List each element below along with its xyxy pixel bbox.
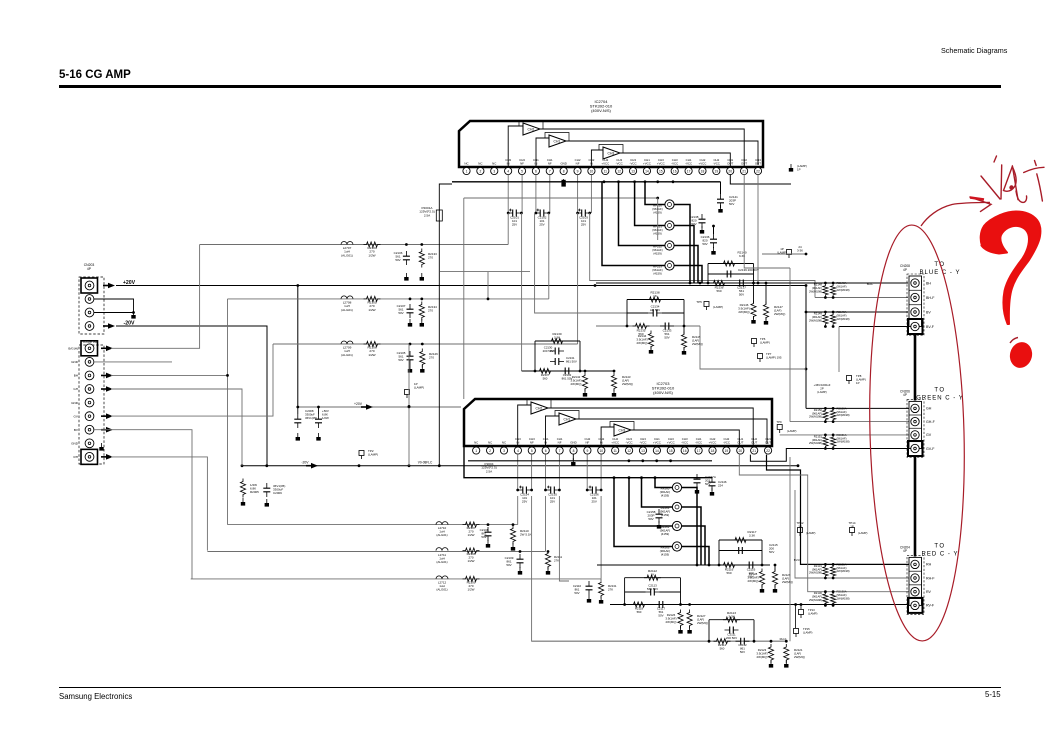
wire internal IC2703 outputs (518, 405, 767, 446)
resistor pair R2148/R2148A (823, 282, 836, 299)
power +20V arrow (103, 280, 136, 288)
resistor R2116 (721, 562, 738, 575)
capacitor C2139 (722, 268, 759, 278)
svg-text:R2151(961AF)2W(M198): R2151(961AF)2W(M198) (809, 434, 822, 445)
capacitor C2110 (573, 581, 593, 595)
connector CN201 pin labels (68, 347, 79, 460)
svg-text:BH: BH (926, 281, 931, 285)
resistor R2113 network (709, 611, 754, 641)
ground C2009 (265, 499, 269, 507)
svg-text:19: 19 (725, 449, 729, 453)
ground R2127 (687, 626, 691, 634)
svg-text:16: 16 (673, 169, 677, 173)
svg-text:CH1: CH1 (554, 140, 561, 144)
wire y641 row (532, 640, 788, 643)
op-amp hybrid IC U-IC2703 STK392-010 (464, 381, 772, 454)
svg-text:+VCC: +VCC (653, 441, 661, 445)
wire row550 riser pin6 (545, 496, 547, 552)
wire BV row (806, 311, 908, 313)
svg-text:7: 7 (559, 449, 561, 453)
svg-text:C2158203P50V: C2158203P50V (647, 510, 656, 521)
svg-text:10: 10 (590, 169, 594, 173)
power +20V arrow mid (354, 402, 373, 410)
wire RH row (767, 455, 912, 565)
capacitor C2132 (560, 368, 574, 381)
ground C2108 (486, 540, 490, 548)
svg-text:17: 17 (687, 169, 691, 173)
svg-text:BLUE C - Y: BLUE C - Y (920, 270, 961, 276)
svg-text:C210756150V: C210756150V (397, 304, 406, 315)
svg-text:L27081uH(ALG01): L27081uH(ALG01) (341, 300, 353, 311)
svg-text:C2111200 50V: C2111200 50V (726, 633, 737, 641)
wire RH-F row (795, 490, 911, 578)
svg-text:11: 11 (613, 449, 617, 453)
svg-text:R21082701/2W: R21082701/2W (467, 552, 476, 563)
wire +20V rail (116, 284, 806, 287)
wire x790 GH-F vertical (789, 268, 791, 422)
svg-text:18: 18 (701, 169, 705, 173)
wire RV row (739, 455, 911, 592)
annotation red ellipse (865, 224, 970, 642)
wire RV-F row (908, 604, 911, 607)
wire RF261 right (682, 507, 701, 565)
ground R2121 (784, 660, 788, 668)
wire net GV (111, 344, 273, 416)
svg-text:5: 5 (531, 449, 533, 453)
wire vertical x464 (463, 198, 465, 399)
svg-text:GREEN C - Y: GREEN C - Y (916, 395, 964, 401)
svg-text:9: 9 (577, 169, 579, 173)
wire C2141 top (720, 182, 722, 194)
svg-text:R2134270: R2134270 (428, 305, 437, 313)
wire -20V rail (241, 464, 800, 467)
wire RF253 left (602, 182, 665, 266)
wire BH row (758, 282, 908, 284)
test point TP13 (799, 608, 818, 618)
capacitor C2113 (625, 584, 681, 596)
svg-text:(LAMP): (LAMP) (806, 531, 816, 535)
wire RF260 right (682, 488, 697, 566)
svg-text:20: 20 (728, 169, 732, 173)
label BV-F mid (794, 558, 801, 562)
connector CN204 TO RED C-Y (900, 543, 958, 614)
ground R2147 (764, 317, 768, 325)
page title (59, 69, 131, 81)
resistor pair R2131/R2131A (823, 563, 836, 579)
wire pin7 drop b (559, 496, 569, 581)
svg-text:GND: GND (71, 441, 79, 445)
svg-text:11: 11 (604, 169, 608, 173)
svg-text:OUT: OUT (737, 441, 743, 445)
svg-text:L27101uH(ALG01): L27101uH(ALG01) (436, 526, 447, 537)
capacitor C2155 (544, 486, 561, 504)
svg-text:R21283.9(1AF)2W(MQ): R21283.9(1AF)2W(MQ) (747, 572, 758, 583)
svg-text:R2143(1AF)2W(MQ): R2143(1AF)2W(MQ) (622, 375, 633, 386)
svg-text:14: 14 (655, 449, 659, 453)
svg-text:L27121uH(ALG01): L27121uH(ALG01) (436, 581, 447, 592)
test point TP2 (359, 449, 378, 459)
svg-text:(LAMP)1P: (LAMP)1P (797, 164, 807, 172)
svg-text:C213882050V: C213882050V (690, 215, 699, 226)
svg-text:TP6(LAMP): TP6(LAMP) (760, 337, 770, 345)
svg-text:21: 21 (742, 169, 746, 173)
wire C2136 stub (712, 225, 715, 234)
resistor pair R2130/R2130A (823, 590, 836, 607)
resistor pair R2150/R2150A (823, 407, 836, 423)
svg-text:C2146224: C2146224 (718, 480, 727, 488)
capacitor C2133 (660, 323, 674, 340)
capacitor C2137 (735, 280, 749, 297)
wire RF253 right (674, 266, 702, 284)
svg-text:TP15(LAMP): TP15(LAMP) (803, 627, 813, 634)
ground R2144 (649, 346, 653, 354)
svg-text:R21233.9(1AF)2W(MQ): R21233.9(1AF)2W(MQ) (756, 648, 767, 659)
svg-text:CN2034P: CN2034P (84, 263, 95, 271)
signal arrows CN201 (101, 346, 113, 460)
footer right (985, 690, 1001, 699)
svg-text:-VCC: -VCC (626, 441, 633, 445)
resistor R2142 (570, 373, 587, 392)
capacitor C2111 (725, 627, 739, 641)
wire -20V from CN203 pin4 (116, 326, 267, 466)
svg-text:+VCC: +VCC (709, 441, 717, 445)
svg-text:+VCC: +VCC (657, 162, 665, 166)
wire pin5 drop (521, 213, 523, 371)
ground at CN201 pin8 (99, 443, 103, 451)
capacitor C2131 (550, 356, 577, 365)
power -20V arrow (103, 321, 135, 329)
ground C2105 (408, 365, 412, 373)
svg-text:C2141203P50V: C2141203P50V (729, 195, 738, 206)
svg-text:R21072701/2W: R21072701/2W (467, 526, 476, 537)
svg-text:RED C - Y: RED C - Y (922, 551, 959, 557)
svg-text:GND: GND (71, 360, 79, 364)
svg-text:243-3K: 243-3K (797, 245, 803, 253)
wire fuse drop (464, 446, 712, 479)
svg-text:R21102W 5.1K: R21102W 5.1K (520, 529, 532, 537)
svg-text:+VCC: +VCC (699, 162, 707, 166)
wire x790 lower vertical (789, 457, 791, 641)
label GV-F (780, 637, 787, 641)
label 24 3K (797, 245, 803, 253)
svg-text:TP7(LAMP) 195: TP7(LAMP) 195 (766, 352, 782, 360)
annotation red VOLT text (981, 156, 1044, 202)
svg-text:NC: NC (474, 441, 478, 445)
jungle coil RF263 (660, 542, 682, 557)
capacitor C2117 (654, 601, 668, 618)
ground R2142 (583, 389, 587, 397)
svg-text:L27091uH(ALG01): L27091uH(ALG01) (341, 346, 353, 357)
svg-text:R21381K: R21381K (650, 291, 659, 299)
svg-text:12: 12 (627, 449, 631, 453)
test point TP15 (794, 627, 813, 637)
svg-text:R2150(961AF)2W(M198): R2150(961AF)2W(M198) (809, 408, 822, 419)
svg-text:C210986150V: C210986150V (505, 556, 514, 567)
jungle coil RF251 (652, 221, 674, 236)
svg-text:R21423.9(1AF)2W(MQ): R21423.9(1AF)2W(MQ) (570, 375, 581, 386)
svg-text:GV: GV (926, 433, 932, 437)
svg-text:CN2064P: CN2064P (900, 389, 910, 397)
svg-text:RV: RV (926, 590, 932, 594)
svg-text:RH-F: RH-F (926, 576, 935, 580)
wire tp3 row (762, 253, 807, 256)
wire gray y198 (464, 197, 659, 200)
svg-text:16: 16 (683, 449, 687, 453)
svg-text:L27071uH(ALG01): L27071uH(ALG01) (341, 246, 353, 257)
test point TP3 (777, 247, 791, 258)
svg-text:C211086150V: C211086150V (573, 584, 582, 595)
svg-text:C210110125V: C210110125V (510, 216, 519, 227)
svg-text:R2116560: R2116560 (725, 568, 734, 576)
ground C2107 (408, 319, 412, 327)
resistor R2134 (419, 298, 437, 321)
capacitor C2158 (647, 509, 663, 523)
svg-text:NC: NC (492, 162, 496, 166)
wire RF263 left (614, 478, 672, 547)
svg-text:2: 2 (489, 449, 491, 453)
op-amp hybrid IC U-IC2704 STK392-010 (459, 99, 763, 175)
ground R2126 (678, 626, 682, 634)
wire BV-F row (839, 327, 908, 373)
wire row524 riser pin4 (517, 496, 519, 525)
svg-text:NC: NC (502, 441, 506, 445)
svg-text:BV: BV (926, 310, 931, 314)
svg-text:R2126270: R2126270 (429, 352, 438, 360)
test point TP6 (752, 337, 770, 347)
svg-text:R21303.3K: R21303.3K (552, 332, 561, 340)
capacitor C2134 (627, 305, 684, 317)
ground R2128 (760, 585, 764, 593)
test point TP14 (849, 521, 868, 536)
capacitor C2115 (734, 543, 778, 554)
connector CN201 outline (79, 345, 104, 464)
svg-text:C2139 200 50V: C2139 200 50V (738, 268, 759, 272)
ground C2136 (711, 247, 715, 255)
wire row578 riser pin10 (600, 496, 602, 579)
wire net GND2 (111, 389, 242, 466)
ground C2138 (700, 226, 704, 234)
svg-text:R2118560: R2118560 (635, 607, 644, 615)
svg-text:-VCC: -VCC (695, 441, 702, 445)
wire out pin21 route (744, 175, 790, 268)
svg-text:R2129(1AF)2W(MQ): R2129(1AF)2W(MQ) (782, 573, 793, 584)
svg-text:BH-F: BH-F (867, 282, 874, 286)
svg-text:CH1: CH1 (564, 418, 571, 422)
capacitor C2009 (263, 483, 285, 497)
svg-text:CH2: CH2 (528, 128, 535, 132)
ground R2129 (773, 585, 777, 593)
resistor R2137 (537, 368, 554, 380)
svg-text:-VCC: -VCC (630, 162, 637, 166)
svg-text:GND: GND (560, 162, 566, 166)
svg-text:21: 21 (752, 449, 756, 453)
wire RF260 left (655, 478, 672, 488)
inductor L2707 resistor R2104 row (200, 242, 509, 258)
svg-text:C2113561 50V: C2113561 50V (647, 584, 658, 592)
ground C2158 (657, 521, 661, 529)
test point TP5 (696, 300, 723, 310)
capacitor C2109 (505, 550, 524, 568)
resistor R2127 (687, 610, 708, 629)
svg-text:RH: RH (74, 455, 78, 459)
annotation red question mark (981, 212, 1041, 325)
svg-text:+20V: +20V (354, 402, 363, 406)
svg-text:C2130200 50V: C2130200 50V (543, 346, 554, 354)
svg-text:R2145(1AF)2W(MQ): R2145(1AF)2W(MQ) (692, 335, 703, 346)
wire GH-F row (790, 421, 911, 423)
label pair R2150 (809, 406, 850, 418)
svg-text:14: 14 (645, 169, 649, 173)
inductor L2710 row (228, 522, 518, 538)
svg-text:RH-F: RH-F (780, 637, 787, 641)
svg-text:13: 13 (631, 169, 635, 173)
capacitor C2008 (294, 406, 317, 428)
resistor R2131b (599, 579, 617, 599)
capacitor C2101 (507, 209, 523, 227)
wire GH row (806, 407, 911, 409)
svg-text:R2130(961AF)2W(M198): R2130(961AF)2W(M198) (809, 591, 822, 602)
svg-text:R2127(1AF)2W(MQ): R2127(1AF)2W(MQ) (697, 614, 708, 625)
ground C2106 (404, 273, 408, 281)
svg-text:R2137560: R2137560 (541, 373, 550, 381)
label pair R2130 (809, 590, 850, 602)
capacitor C2103 (576, 209, 591, 227)
svg-text:C2134AR 50V: C2134AR 50V (650, 305, 660, 313)
ground at CN203 pin3 (131, 311, 135, 319)
jungle coil RF262 (660, 521, 682, 536)
wire net BG-H (111, 245, 200, 349)
ground R2005 (241, 498, 245, 506)
svg-text:P2004125V(F2.5)2.5A: P2004125V(F2.5)2.5A (481, 462, 496, 473)
svg-text:13: 13 (641, 449, 645, 453)
annotation red arrow curve (921, 197, 991, 226)
ground R2126b (420, 365, 424, 373)
svg-text:BH-F: BH-F (926, 296, 935, 300)
jungle coil RF252 (652, 241, 674, 256)
capacitor C2156 (586, 486, 603, 504)
capacitor C2112 (736, 638, 750, 654)
resistor R2114 (714, 639, 731, 651)
label pair R2148 (809, 281, 850, 293)
svg-text:R21173.3K: R21173.3K (748, 530, 757, 538)
resistor R2112 network (625, 569, 681, 605)
svg-text:C210210125V: C210210125V (538, 216, 547, 227)
svg-text:V0-08FLC: V0-08FLC (418, 461, 433, 465)
svg-text:CH2: CH2 (536, 407, 543, 411)
svg-text:R21092701/2W: R21092701/2W (467, 581, 476, 592)
connector CN203 outline (79, 277, 104, 334)
resistor R2111 (545, 550, 562, 569)
svg-text:TP5: TP5 (696, 300, 702, 304)
svg-text:NF: NF (548, 162, 552, 166)
svg-text:+VCC: +VCC (601, 162, 609, 166)
svg-text:20: 20 (738, 449, 742, 453)
resistor R2110 (510, 523, 531, 544)
ground R2145 (682, 347, 686, 355)
resistor R2121 (784, 644, 805, 663)
svg-text:TP2(LAMP): TP2(LAMP) (368, 449, 378, 457)
wire net GH (111, 299, 229, 525)
wire net RH (111, 457, 207, 551)
svg-text:C210310125V: C210310125V (579, 216, 588, 227)
wire y271 step (440, 272, 530, 301)
svg-text:R2121(1AF)2W(MQ): R2121(1AF)2W(MQ) (794, 648, 805, 659)
svg-text:IC2704STK392-010(400V-N/S): IC2704STK392-010(400V-N/S) (590, 99, 613, 113)
wire +20V drop to C2008 (297, 286, 299, 408)
capacitor C2108 (480, 523, 492, 541)
svg-text:+VCC: +VCC (643, 162, 651, 166)
fuse P2001A (419, 206, 442, 221)
svg-text:2: 2 (479, 169, 481, 173)
svg-text:NF: NF (520, 162, 524, 166)
svg-text:1: 1 (475, 449, 477, 453)
svg-text:8: 8 (563, 169, 565, 173)
svg-text:36V1(05)3300uFC2009: 36V1(05)3300uFC2009 (273, 484, 285, 495)
capacitor C2136 (701, 234, 717, 248)
header label (941, 46, 1007, 55)
svg-text:R21121K: R21121K (648, 569, 657, 577)
diode D2 cluster (814, 383, 831, 394)
jungle coil RF260 (660, 483, 682, 498)
svg-text:(LAMP): (LAMP) (787, 429, 797, 433)
svg-text:9: 9 (586, 449, 588, 453)
svg-text:GH: GH (926, 407, 932, 411)
svg-text:4: 4 (507, 169, 509, 173)
wire net BH (94, 361, 172, 363)
test point TP1 (405, 382, 425, 398)
resistor R2005 (240, 479, 259, 498)
capacitor C2116 (744, 562, 758, 579)
wire BH-F row (815, 297, 908, 299)
svg-text:-VCC: -VCC (681, 441, 688, 445)
wire out pin20 route (730, 175, 791, 184)
wire net BV (94, 430, 192, 579)
ground pin8 IC2703 (571, 454, 575, 466)
svg-text:-VCC: -VCC (723, 441, 730, 445)
svg-text:R2114560: R2114560 (718, 643, 727, 651)
wire y326 row (596, 325, 700, 328)
wire RF251 right (674, 226, 694, 284)
wire pin9 drop (577, 213, 579, 344)
capacitor C2141 (717, 194, 738, 208)
resistor R2147 (763, 282, 785, 321)
inductor L2712 row (191, 576, 601, 592)
inductor L2708 resistor R2105 row (228, 296, 549, 312)
svg-text:C210656150V: C210656150V (394, 251, 403, 262)
svg-text:C20083300uF36V1(05): C20083300uF36V1(05) (305, 409, 317, 420)
svg-text:C211756150V: C211756150V (657, 607, 666, 618)
svg-text:R2136560: R2136560 (715, 286, 724, 294)
svg-text:R2147(1AF)2W(MQ): R2147(1AF)2W(MQ) (774, 305, 785, 316)
ground R2111 (546, 567, 550, 575)
ground C2109 (518, 567, 522, 575)
label BH-F mid (867, 282, 874, 286)
svg-text:BV-F: BV-F (926, 325, 935, 329)
svg-text:R21062701/2W: R21062701/2W (367, 346, 376, 357)
svg-text:12: 12 (617, 169, 621, 173)
svg-text:C2157A20350V: C2157A20350V (705, 475, 716, 486)
label pair R2131 (809, 562, 850, 574)
test point GV TP (776, 420, 796, 433)
wire pin7 drop (548, 213, 550, 299)
svg-text:L27111uH(ALG01): L27111uH(ALG01) (436, 553, 447, 564)
svg-text:TO: TO (934, 387, 945, 393)
capacitor C2105 (397, 343, 414, 365)
wire GV-F row (750, 449, 911, 462)
svg-text:GV: GV (74, 414, 79, 418)
svg-text:22: 22 (766, 449, 770, 453)
connector CN208 TO BLUE C-Y (900, 262, 960, 336)
